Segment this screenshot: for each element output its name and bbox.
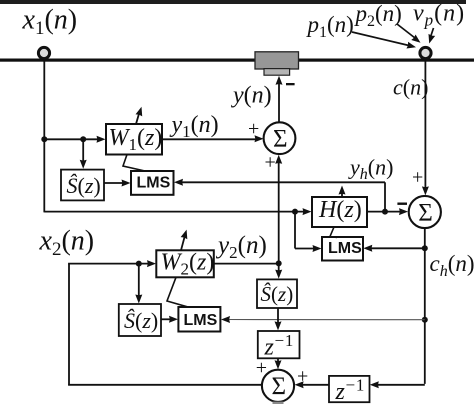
block Shat2 [119,304,161,336]
svg-text:Ŝ(z): Ŝ(z) [124,308,158,333]
block LMS1 [131,171,174,195]
svg-text:p2(n): p2(n) [354,1,402,30]
speaker cone [264,69,290,76]
block W1(z) [106,124,162,155]
svg-text:+: + [256,357,267,379]
svg-text:+: + [412,166,423,188]
svg-text:c(n): c(n) [393,75,428,100]
svg-text:Ŝ(z): Ŝ(z) [67,173,101,198]
arrow p2 to node [397,24,423,46]
node junction before W2 [136,261,142,267]
arrow vp to node [426,28,435,45]
duct line (main horizontal line) [0,59,474,62]
svg-text:y2(n): y2(n) [215,232,267,262]
wire Shat2 to LMS3 [161,316,178,323]
adapt arrow on W1 [136,106,145,124]
adapt arrow on W2 [181,229,190,251]
svg-text:x2(n): x2(n) [39,226,95,261]
node junction y2 join [276,260,282,266]
summer S1 [264,122,296,154]
zigzag W2 to LMS3 [167,277,189,307]
wire feedback loop bottom [68,384,262,386]
wire H output to summer S2 [367,208,408,215]
wire yh vertical drop [384,182,386,211]
svg-text:y(n): y(n) [231,83,272,109]
wire x1 to H(z) [44,208,311,215]
zigzag H to LMS2 [330,227,337,238]
svg-text:+: + [248,118,259,140]
block Shat3 [257,279,297,308]
svg-text:LMS: LMS [137,174,171,191]
svg-text:y1(n): y1(n) [170,112,219,141]
node: reference mic x1 [38,47,49,58]
svg-text:LMS: LMS [184,312,218,329]
wire Shat1 to LMS1 [104,180,131,187]
block LMS2 [322,237,363,261]
svg-text:vp(n): vp(n) [413,1,465,30]
svg-text:H(z): H(z) [318,197,362,223]
block z1 delay [258,331,300,360]
summer S2 [409,196,441,228]
zigzag W1 to LMS1 [123,155,145,172]
block W2(z) [156,250,214,279]
wire x1 tap: duct down left side [43,61,45,212]
summer S3 [262,370,294,402]
svg-text:x1(n): x1(n) [22,5,78,40]
wire z1 to summer S3 [275,358,282,369]
minus sign at speaker [286,83,295,85]
svg-text:p1(n): p1(n) [306,12,354,41]
wire W2 output to y2 join [214,263,279,265]
wire W1 output to summer S1 [162,135,264,142]
speaker body [255,52,299,69]
wire x2 into W2 [68,260,156,267]
node junction on left vertical [41,136,47,142]
minus sign S2 left [397,203,407,205]
svg-text:yh(n): yh(n) [348,155,393,184]
svg-text:Ŝ(z): Ŝ(z) [261,282,294,306]
wire y2 vertical: up into S1, down into Shat3 [275,155,282,279]
wire z2 to summer S3 [295,381,329,388]
wire Shat3 to z1 [275,308,282,330]
top boundary bar [0,0,466,4]
node junction ch to LMS3 (thin line tap) [422,317,428,323]
wire c(n): error mic down into S2 [422,61,429,195]
wire y(n): summer S1 to speaker [276,76,283,123]
wire to W1 input [44,136,105,143]
node: error mic [420,47,431,58]
node junction ch to LMS2 [422,245,428,251]
svg-text:+: + [265,152,276,174]
wire branch down to Shat2 [135,264,142,304]
svg-text:LMS: LMS [328,240,362,257]
svg-text:Σ: Σ [272,373,287,400]
node junction yh tap [382,209,388,215]
block z2 delay [329,376,370,404]
wire branch to LMS2 [295,212,322,252]
block LMS3 [178,307,220,332]
block Shat1 [61,170,104,201]
wire ch to LMS2 [363,245,425,252]
wire ch to LMS3 (thin) [221,316,425,323]
wire ch: S2 output down and to z2 [370,228,425,388]
svg-text:ch(n): ch(n) [430,251,474,280]
wire branch down to Shat1 [80,139,87,169]
svg-text:Σ: Σ [418,199,433,226]
block H(z) [312,197,367,227]
svg-text:Σ: Σ [273,126,288,153]
node junction before W1 [80,136,86,142]
adapt arrow on H [339,186,346,198]
stub below S3 [273,402,284,404]
wire yh to LMS1 (right input) [174,179,385,186]
wire feedback loop left [68,264,70,385]
arrow p1 to node [352,32,417,51]
node junction H input tap [292,209,298,215]
